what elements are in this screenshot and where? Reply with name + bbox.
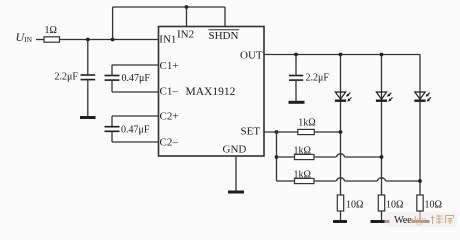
junction dot IN2 stub [185,5,189,9]
resistor R7 10ohm [417,195,423,211]
junction dot R4 LED3 [418,179,422,183]
wire C2+ pin [112,115,159,117]
LED D2 [376,92,393,102]
svg-text:UIN: UIN [16,30,33,44]
svg-text:IN2: IN2 [177,29,194,41]
svg-text:SHDN: SHDN [209,30,239,42]
svg-text:10Ω: 10Ω [425,200,442,211]
LED D3 [414,92,431,102]
junction dot ladder row2 [275,155,279,159]
svg-text:1kΩ: 1kΩ [294,146,311,157]
svg-text:GND: GND [223,144,247,156]
resistor R2 1kohm [298,129,315,134]
wire ladder vertical [276,132,278,181]
wire LED3 column [419,55,421,196]
wire SET row to R2 [264,131,298,133]
svg-text:1kΩ: 1kΩ [294,170,311,181]
wire IN2 stub [186,7,188,27]
wire C2- pin [112,141,159,143]
wire C1+ pin [112,64,159,66]
wire LED1 column [340,55,342,196]
capacitor C1 2.2uF input top lead [87,40,89,75]
wire LED3 to ground [419,211,421,220]
capacitor C1 plates [81,75,96,80]
resistor R3 1kohm [295,154,315,159]
wire hop over LED1 column row3 [337,178,345,181]
wire R2 to LED1 column [314,131,340,133]
LED D1 [335,92,352,102]
IC U1 MAX1912 body [159,27,265,157]
svg-text:10Ω: 10Ω [386,200,403,211]
wire LED2 column [381,55,383,196]
svg-text:2.2μF: 2.2μF [306,73,330,84]
svg-text:C1–: C1– [160,86,179,98]
capacitor C4 2.2uF output top lead [295,55,297,75]
wire OUT rail [264,54,420,56]
svg-text:0.47μF: 0.47μF [121,125,150,136]
svg-text:IN1: IN1 [159,34,176,46]
resistor R5 10ohm [337,195,343,211]
capacitor C1 bottom lead [87,80,89,116]
wire GND pin down [235,156,237,191]
wire hop to LED3 column [386,180,421,182]
wire hop over LED1 column row2 [337,154,345,157]
wire UIN input to resistor [36,39,44,41]
ground bar LED3 [412,220,430,223]
junction dot input-cap tap [86,38,90,42]
svg-text:MAX1912: MAX1912 [186,86,236,98]
svg-text:0.47μF: 0.47μF [122,73,151,84]
wire between hops row3 [345,180,378,182]
capacitor C3 bottom lead [111,132,113,142]
watermark background [385,212,458,227]
capacitor C3 0.47uF top lead [111,116,113,126]
capacitor C4 bottom lead [295,81,297,101]
wire hop over LED2 column row3 [378,178,386,181]
junction dot R3 LED2 [380,155,384,159]
wire LED2 to ground [381,211,383,220]
ground bar LED1 [333,220,347,223]
svg-text:2.2μF: 2.2μF [55,72,79,83]
wire LED1 to ground [340,211,342,220]
ground bar LED2 [371,220,390,223]
ground bar under C4 [289,101,305,104]
resistor R4 1kohm [295,178,315,183]
svg-text:SET: SET [241,126,261,138]
svg-text:C2–: C2– [160,137,179,149]
watermark glyph tui [431,215,443,224]
resistor R1 1ohm [44,37,60,42]
capacitor C3 plates [105,127,120,132]
wire SHDN stub [224,7,226,27]
overline SHDN [209,29,240,31]
junction dot LED1 tap [339,53,343,57]
resistor R6 10ohm [378,195,384,211]
svg-text:C1+: C1+ [160,60,179,72]
capacitor C2 plates [105,76,120,81]
capacitor C2 0.47uF top lead [111,65,113,75]
ground bar under GND [228,191,244,194]
capacitor C4 plates [289,76,303,81]
capacitor C2 bottom lead [111,81,113,92]
wire R4 to first hop [314,180,337,182]
svg-text:OUT: OUT [240,50,263,62]
wire riser to top rail [112,7,114,40]
wire row2 to R3 [277,156,295,158]
wire hop to LED2 column [345,156,382,158]
wire top rail [113,6,225,8]
svg-text:1kΩ: 1kΩ [298,117,315,128]
junction dot SET ladder [275,130,279,134]
svg-text:Weedge: Weedge [394,215,426,226]
junction dot LED2 tap [380,53,384,57]
watermark glyph ku [446,216,454,225]
svg-text:C2+: C2+ [160,111,179,123]
wire resistor to IN1 pin [60,39,159,41]
svg-text:10Ω: 10Ω [346,200,363,211]
svg-text:1Ω: 1Ω [45,25,57,36]
ground bar under C1 [80,116,96,119]
wire row3 to R4 [277,180,295,182]
wire R3 to hop [314,156,337,158]
wire C1- pin [112,91,159,93]
junction dot top-rail tap [111,38,115,42]
junction dot R2 LED1 [339,130,343,134]
junction dot output cap [294,53,298,57]
